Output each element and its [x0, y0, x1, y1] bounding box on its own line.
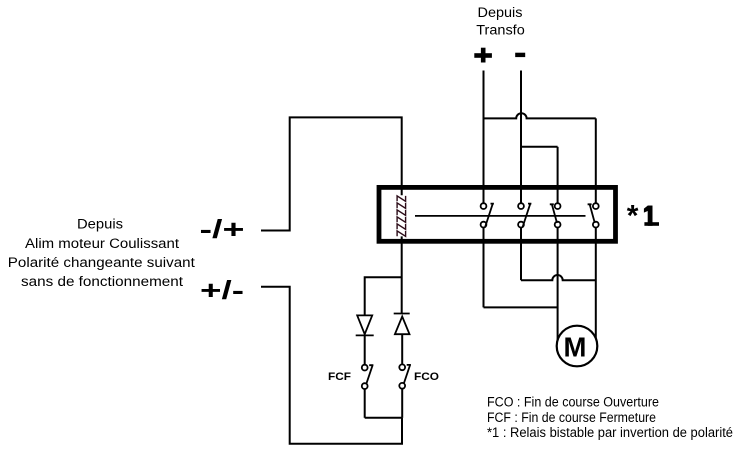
wire: S2 bottom down	[520, 228, 522, 281]
wire: coil bottom down to diode D2	[401, 236, 403, 313]
svg-text:-/+: -/+	[200, 214, 245, 244]
svg-text:Polarité changeante suivant: Polarité changeante suivant	[8, 255, 195, 270]
switch S4	[588, 203, 599, 227]
switch S3	[550, 203, 561, 227]
wire: FCF/FCO common	[365, 417, 403, 419]
wire: +/- feed down and around to FCF/FCO common	[261, 287, 402, 444]
label: Depuis Alim moteur Coulissant (left block)	[8, 217, 195, 290]
wire: -/+ feed up and over to relay coil	[261, 117, 402, 230]
svg-text:FCO : Fin de course Ouverture: FCO : Fin de course Ouverture	[487, 394, 659, 409]
wire: S4 bottom down to motor right	[595, 228, 597, 339]
wire: vertical down to switch S3	[557, 147, 559, 203]
wire: - down to switch S2	[520, 71, 522, 204]
switch S1	[481, 203, 494, 227]
label *1	[627, 200, 659, 233]
svg-text:*1 : Relais bistable par inver: *1 : Relais bistable par invertion de po…	[487, 425, 733, 440]
wire: S3 bottom down to motor left	[557, 228, 559, 343]
svg-text:+/-: +/-	[200, 275, 244, 305]
svg-text:M: M	[563, 332, 586, 363]
switch S2	[518, 203, 531, 227]
wire: + feed across to switch S4 (hop over - wire)	[484, 113, 596, 118]
relay coil (zigzag)	[397, 196, 406, 236]
svg-text:Depuis: Depuis	[478, 5, 523, 20]
wire: FCF bottom down	[364, 389, 366, 418]
relay box K1	[379, 187, 616, 241]
wire: FCO bottom down	[401, 389, 403, 418]
terminal - (transfo)	[515, 53, 525, 57]
wire: D2 to FCO	[401, 334, 403, 364]
svg-text:FCF : Fin de course Fermeture: FCF : Fin de course Fermeture	[487, 410, 656, 425]
wire: vertical down to switch S4	[595, 118, 597, 203]
wire: branch to diode D1	[365, 277, 402, 315]
svg-text:sans de fonctionnement: sans de fonctionnement	[21, 274, 183, 289]
mechanical linkage line	[415, 215, 586, 217]
label: Depuis Transfo (top)	[476, 5, 525, 38]
svg-text:Alim moteur Coulissant: Alim moteur Coulissant	[25, 236, 179, 251]
terminal + (transfo)	[474, 48, 492, 63]
wire: S2 across to S4 wire (hop over S3 wire)	[521, 275, 596, 280]
switch FCO	[399, 364, 411, 388]
svg-text:*: *	[627, 200, 639, 233]
wire: - feed across to switch S3	[521, 146, 558, 148]
svg-text:Transfo: Transfo	[476, 22, 525, 37]
svg-text:FCF: FCF	[328, 371, 351, 383]
diode D1 (cathode down)	[356, 315, 374, 335]
motor M	[557, 326, 598, 367]
legend	[487, 394, 733, 439]
wire: S1 to motor-left node	[484, 306, 558, 308]
svg-text:Depuis: Depuis	[77, 217, 123, 232]
diode D2 (cathode up)	[394, 314, 410, 335]
switch FCF	[362, 365, 374, 389]
wire: D1 to FCF	[364, 335, 366, 364]
wire: S1 bottom down	[483, 228, 485, 308]
svg-text:FCO: FCO	[414, 371, 439, 383]
wire: + down to switch S1	[483, 71, 485, 204]
